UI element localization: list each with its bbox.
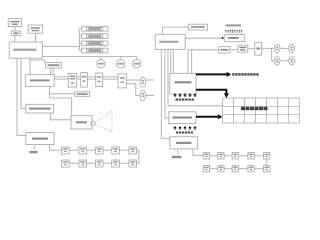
LCD label: [31, 27, 41, 31]
input arrows under box B: [173, 126, 196, 130]
MCU U2 PIC16F73 left: [9, 42, 42, 58]
wire PT to reverb: [51, 113, 72, 120]
audio detect box: [75, 92, 90, 97]
wifi module box U1: [8, 19, 21, 27]
key box 2: [82, 34, 108, 39]
wire MCU to speaker bus: [43, 56, 137, 58]
key box 1: [82, 27, 108, 31]
audio double bus seg2: [77, 76, 81, 78]
wifi module label: [10, 21, 20, 25]
wire MCU corner to RF chain: [188, 50, 219, 74]
box B audio processor: [169, 112, 196, 124]
analog TV label: [232, 73, 258, 76]
right chain row1 box4: [248, 153, 254, 159]
bus vertical: [78, 29, 80, 51]
amp tall box: [255, 42, 262, 55]
wire MCU bottom v5: [172, 49, 174, 73]
speaker circle 3: [133, 60, 141, 68]
LCD display box: [28, 25, 42, 33]
AV amplifier box: [25, 75, 54, 87]
MCU label: [13, 49, 36, 51]
connector pins: [225, 30, 242, 33]
audio double bus seg3: [87, 76, 95, 78]
left chain row2 box5: [129, 160, 137, 167]
stub speaker1: [100, 57, 102, 60]
wire row1 to row2: [137, 150, 139, 163]
wire MCU bottom v2 to box B: [165, 49, 169, 118]
stub key4: [79, 49, 81, 51]
serial port label: [13, 32, 19, 34]
control board right box: [170, 137, 198, 149]
signal cable label: [225, 24, 241, 26]
audio stage box 2: [81, 73, 88, 88]
wire board to right chain: [193, 149, 203, 155]
wire MCU bottom v3 to table: [168, 49, 223, 106]
wire MCU bottom v1 to board C: [161, 49, 170, 138]
serial stub: [34, 145, 36, 150]
left chain row2 box2: [79, 160, 87, 167]
wire drop to row2: [272, 48, 275, 61]
RF box 1: [219, 47, 230, 53]
stub key3: [79, 42, 81, 44]
wire board to chain: [49, 145, 61, 151]
TV label: [241, 107, 268, 110]
left chain row1 box4: [112, 147, 120, 154]
stub key2: [79, 35, 81, 37]
speaker circle 1: [97, 60, 105, 68]
wire: [69, 162, 79, 164]
wire: [103, 149, 112, 151]
right chain row2 box1: [203, 166, 209, 172]
wire MCU to PT module: [21, 58, 26, 108]
speaker ellipse r1a: [274, 44, 280, 52]
speaker ellipse r1b: [289, 44, 295, 52]
speaker circle 2: [117, 60, 125, 68]
stub speaker2: [120, 57, 122, 60]
emitter circle: [91, 121, 95, 125]
wire: [87, 149, 96, 151]
wire volume to AV amp b: [52, 68, 54, 75]
wire: [103, 162, 112, 164]
wire MCU bottom v4: [170, 49, 172, 73]
left chain row1 box5: [129, 147, 137, 154]
stub speaker3: [136, 57, 138, 60]
right chain row2 box4: [248, 166, 254, 172]
right chain row1 box5: [264, 153, 270, 159]
input label A: [176, 99, 195, 101]
wire amp to speakers: [262, 47, 275, 49]
wire stage4 to mic2: [127, 84, 140, 96]
right chain row2 box5: [264, 166, 270, 172]
wire r2: [280, 60, 289, 62]
MCU U3 PIC16F73 right: [155, 34, 185, 49]
RF box 2 24C02: [238, 45, 248, 52]
audio double bus seg4: [103, 76, 119, 78]
wire stage4 to mic1: [127, 79, 140, 81]
wire MCU to cable box with arrowhead: [185, 37, 222, 39]
cable interface box: [224, 34, 245, 41]
key box 4: [82, 48, 108, 53]
left chain row1 box1: [62, 147, 70, 154]
wire: [69, 149, 79, 151]
audio stage box 3: [96, 73, 103, 87]
right chain row2 box3: [232, 166, 238, 172]
wire serial to MCU: [14, 35, 16, 42]
wire: [210, 155, 218, 157]
serial port box J1: [12, 31, 21, 35]
input arrows under box A: [173, 93, 196, 97]
wire: [254, 168, 263, 170]
mic ellipse 1: [140, 77, 146, 87]
left chain row2 box3: [95, 160, 103, 167]
wire: [239, 168, 248, 170]
audio stage box 1: [68, 73, 76, 87]
AV switch box A: [170, 73, 196, 94]
wire to reverb box top: [50, 98, 72, 116]
wire to audio detect box: [50, 93, 75, 95]
key box 3: [82, 41, 108, 45]
black arrow to analog TV: [196, 73, 227, 75]
wire MCU to control board left: [17, 58, 26, 135]
serial line label: [30, 151, 38, 153]
wire: [224, 155, 232, 157]
wire AV amp down branch: [49, 86, 51, 98]
serial label right: [172, 156, 181, 158]
wire MCU branch to volume box: [30, 60, 45, 63]
wire MCU to key bus: [43, 46, 80, 48]
LCD TV table: [223, 98, 300, 123]
audio stage box 4: [118, 74, 127, 88]
stub key1: [79, 28, 81, 30]
PT volume module box: [26, 104, 54, 113]
wire: [210, 168, 218, 170]
right chain row1 box3: [232, 153, 238, 159]
wire: [239, 155, 248, 157]
wire mic1 stub: [146, 79, 154, 81]
black arrow B to table: [196, 116, 218, 118]
audio double bus seg1: [54, 76, 68, 78]
wire: [87, 162, 96, 164]
wire: [119, 149, 128, 151]
wire row1 to row2 right: [266, 159, 268, 166]
black arrow bend to table: [196, 90, 226, 94]
wire parallel down: [191, 50, 193, 73]
control board left box: [26, 133, 54, 145]
wire volume to AV amp a: [50, 68, 52, 75]
speaker ellipse r2b: [289, 57, 295, 65]
input label B: [176, 132, 193, 134]
right chain row1 box1: [203, 153, 209, 159]
mic ellipse 2: [140, 91, 146, 101]
wire: [254, 155, 263, 157]
wifi module box right: [188, 24, 207, 30]
wire: [119, 162, 128, 164]
reverb box: [71, 116, 92, 129]
wire MCU to AV amp: [29, 58, 31, 74]
speaker ellipse r2a: [274, 57, 280, 65]
volume pot box: [46, 63, 62, 69]
left chain row2 box1: [62, 160, 70, 167]
serial stub right: [177, 149, 179, 155]
wire: [224, 168, 232, 170]
left chain row2 box4: [112, 160, 120, 167]
wire: [248, 48, 255, 50]
wire LCD to MCU: [35, 33, 37, 42]
wire mic2 stub: [146, 95, 154, 97]
wire: [230, 49, 238, 51]
wire wifi to serial: [14, 27, 16, 32]
wire right MCU to wifi: [163, 27, 189, 34]
wire r1: [280, 47, 289, 49]
right chain row2 box2: [218, 166, 224, 172]
sound beam dashed: [95, 111, 112, 131]
right chain row1 box2: [218, 153, 224, 159]
left chain row1 box2: [79, 147, 87, 154]
left chain row1 box3: [95, 147, 103, 154]
